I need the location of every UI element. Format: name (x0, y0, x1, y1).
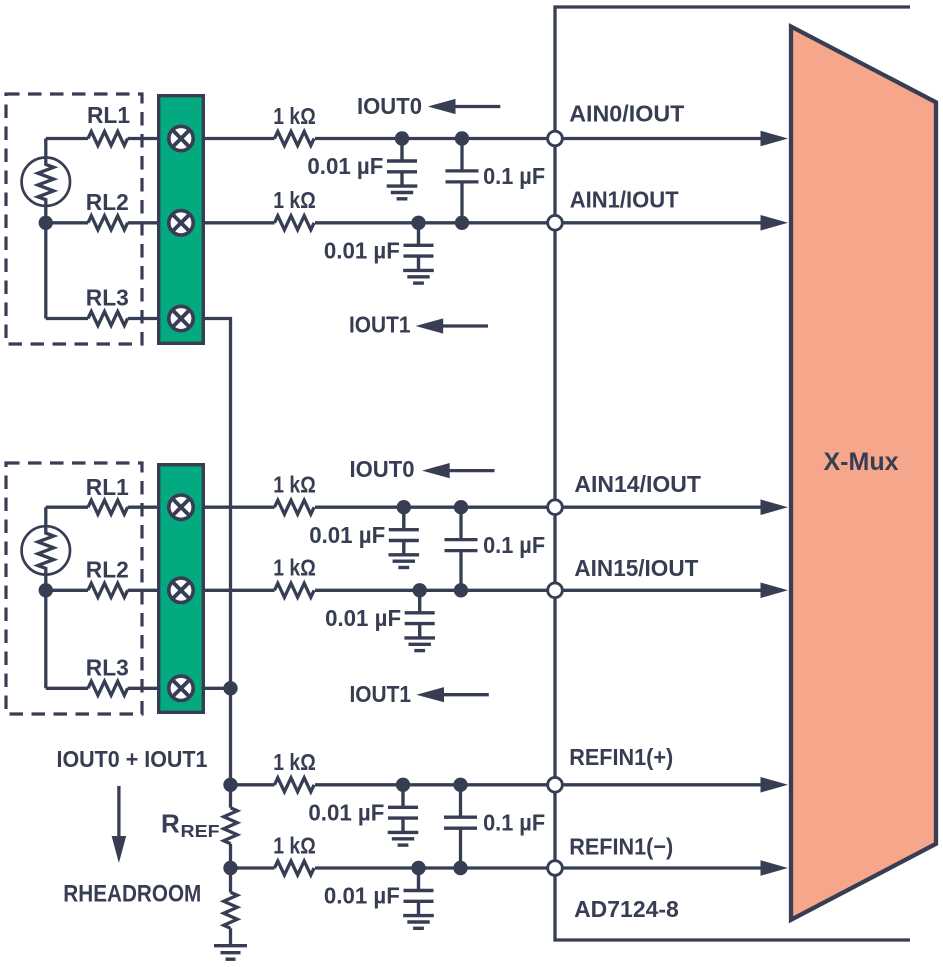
svg-text:0.01 µF: 0.01 µF (308, 800, 384, 826)
svg-text:0.01 µF: 0.01 µF (324, 883, 400, 909)
svg-text:RHEADROOM: RHEADROOM (63, 881, 201, 908)
svg-text:AD7124-8: AD7124-8 (574, 896, 679, 922)
svg-text:REFIN1(+): REFIN1(+) (569, 744, 673, 770)
svg-text:REF: REF (181, 821, 220, 841)
svg-text:AIN1/IOUT: AIN1/IOUT (570, 187, 680, 213)
svg-text:AIN14/IOUT: AIN14/IOUT (574, 471, 701, 497)
svg-text:0.01 µF: 0.01 µF (324, 238, 400, 264)
svg-text:1 kΩ: 1 kΩ (273, 187, 316, 213)
svg-text:IOUT0: IOUT0 (350, 456, 415, 482)
svg-text:1 kΩ: 1 kΩ (273, 749, 316, 775)
svg-text:1 kΩ: 1 kΩ (273, 555, 316, 581)
svg-text:IOUT0: IOUT0 (357, 93, 422, 119)
svg-text:0.01 µF: 0.01 µF (307, 153, 383, 179)
svg-text:0.1 µF: 0.1 µF (483, 809, 545, 835)
svg-text:IOUT1: IOUT1 (349, 312, 411, 338)
svg-text:REFIN1(−): REFIN1(−) (569, 833, 673, 859)
svg-text:RL2: RL2 (86, 556, 129, 582)
svg-text:R: R (161, 809, 180, 839)
svg-text:0.1 µF: 0.1 µF (483, 532, 545, 558)
svg-text:0.1 µF: 0.1 µF (483, 163, 545, 189)
svg-text:RL1: RL1 (86, 474, 129, 500)
svg-text:1 kΩ: 1 kΩ (273, 103, 316, 129)
svg-text:AIN15/IOUT: AIN15/IOUT (574, 555, 699, 581)
svg-text:0.01 µF: 0.01 µF (309, 522, 385, 548)
svg-text:IOUT1: IOUT1 (350, 681, 412, 707)
svg-text:0.01 µF: 0.01 µF (325, 605, 401, 631)
svg-text:X-Mux: X-Mux (824, 448, 899, 476)
svg-text:RL3: RL3 (86, 654, 129, 680)
svg-text:RL1: RL1 (87, 102, 130, 128)
svg-text:RL3: RL3 (86, 284, 129, 310)
svg-text:1 kΩ: 1 kΩ (273, 832, 316, 858)
svg-text:RL2: RL2 (86, 189, 129, 215)
svg-text:IOUT0 + IOUT1: IOUT0 + IOUT1 (57, 746, 208, 772)
svg-text:AIN0/IOUT: AIN0/IOUT (569, 100, 685, 126)
svg-text:1 kΩ: 1 kΩ (273, 472, 316, 498)
